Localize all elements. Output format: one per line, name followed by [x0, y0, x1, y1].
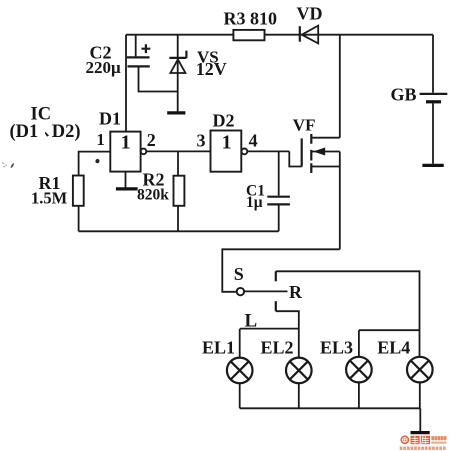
svg-text:(D1: (D1: [10, 122, 39, 142]
svg-text:220μ: 220μ: [86, 58, 122, 77]
svg-text:1: 1: [222, 131, 232, 153]
svg-text:1.5M: 1.5M: [31, 188, 68, 207]
svg-text:EL3: EL3: [320, 337, 353, 357]
svg-text:1μ: 1μ: [246, 194, 263, 211]
svg-text:1: 1: [97, 130, 105, 149]
svg-text:S: S: [234, 264, 244, 284]
svg-text:820k: 820k: [137, 186, 169, 203]
svg-text:2: 2: [147, 130, 156, 150]
svg-text:3: 3: [197, 130, 206, 150]
svg-text:1: 1: [121, 132, 131, 154]
svg-text:D1: D1: [99, 108, 121, 128]
svg-text:EL1: EL1: [202, 337, 235, 357]
svg-text:D2): D2): [52, 122, 81, 142]
svg-text:D2: D2: [213, 110, 235, 130]
svg-text:12V: 12V: [196, 59, 227, 79]
svg-text:EL2: EL2: [261, 337, 294, 357]
svg-text:L: L: [245, 311, 258, 332]
svg-text:EL4: EL4: [377, 337, 410, 357]
svg-text:VD: VD: [297, 4, 323, 24]
svg-text:4: 4: [249, 130, 258, 150]
svg-text:GB: GB: [391, 85, 417, 105]
svg-text:R: R: [289, 282, 303, 302]
svg-text:VF: VF: [293, 116, 316, 135]
svg-text:R3 810: R3 810: [224, 9, 278, 29]
